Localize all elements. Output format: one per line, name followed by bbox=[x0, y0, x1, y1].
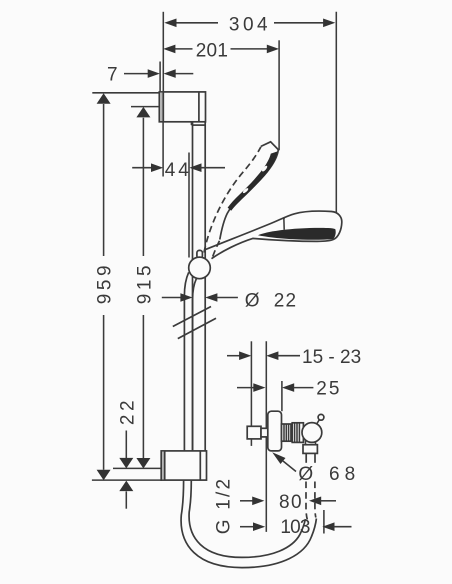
slider holder circle bbox=[189, 257, 211, 279]
hand shower dashed position: head cap bbox=[261, 142, 278, 150]
svg-text:22: 22 bbox=[117, 397, 138, 425]
svg-text:304: 304 bbox=[229, 14, 271, 35]
svg-text:25: 25 bbox=[316, 378, 341, 399]
valve knob nub bbox=[317, 414, 324, 423]
svg-text:G 1/2: G 1/2 bbox=[214, 477, 235, 534]
hand shower solid position: spray face band bbox=[258, 228, 336, 240]
dim 15-23 bbox=[227, 347, 361, 368]
valve knob bbox=[302, 423, 322, 443]
svg-text:22: 22 bbox=[274, 290, 298, 311]
dim 304 bbox=[164, 14, 335, 35]
extension line B (escutcheon) bbox=[265, 341, 267, 532]
extension line A (15-23 left) bbox=[250, 341, 252, 446]
wall bar rail bbox=[193, 123, 206, 452]
svg-text:80: 80 bbox=[279, 492, 303, 513]
dim 959 vertical bbox=[94, 93, 115, 480]
extension line 915 bottom bbox=[113, 467, 162, 469]
break marks across rail bbox=[173, 307, 211, 327]
hand shower solid position: select button bbox=[283, 220, 285, 230]
dim 25 bbox=[237, 378, 341, 399]
extension line 201 target bbox=[278, 40, 280, 150]
dim 7 bbox=[107, 64, 193, 85]
valve supply pipe bbox=[247, 426, 268, 439]
valve outlet bbox=[303, 441, 317, 463]
extension line 915 top bbox=[131, 106, 160, 108]
hand shower dashed position: spray face band bbox=[228, 151, 278, 210]
dim diameter 22 bbox=[162, 290, 298, 311]
valve escutcheon bbox=[268, 411, 282, 451]
wall extension line top bbox=[162, 12, 164, 92]
wall plate line for 7 dim bbox=[159, 62, 161, 92]
hand shower dashed position: head right outline bbox=[220, 150, 278, 240]
extension line 304 target bbox=[335, 12, 337, 213]
hose upper from handle bbox=[184, 272, 196, 451]
svg-text:68: 68 bbox=[329, 464, 360, 485]
extension line C (escutcheon front) bbox=[281, 381, 283, 411]
svg-text:7: 7 bbox=[107, 64, 118, 85]
svg-text:15 - 23: 15 - 23 bbox=[302, 347, 361, 368]
hose dashed section to valve bbox=[306, 482, 316, 520]
dim 80 bbox=[240, 492, 336, 513]
svg-text:959: 959 bbox=[94, 262, 115, 304]
svg-text:201: 201 bbox=[196, 40, 229, 61]
hose below bracket + bottom loop bbox=[181, 480, 316, 567]
dim 201 bbox=[163, 40, 279, 61]
valve cartridge knurl bbox=[282, 424, 293, 441]
dim 103 bbox=[240, 517, 352, 538]
valve body bbox=[292, 423, 303, 443]
slider holder nub bbox=[197, 250, 203, 258]
svg-text:44: 44 bbox=[165, 160, 192, 181]
bottom bracket bbox=[161, 451, 206, 480]
extension line 959 bottom bbox=[92, 479, 162, 481]
dim 22 vertical bbox=[117, 397, 138, 509]
extension line 103 right bbox=[323, 510, 325, 534]
dim 915 vertical bbox=[135, 107, 156, 469]
hand shower dashed position: handle outline dashed bbox=[204, 147, 261, 257]
hand shower solid position: body outline bbox=[206, 211, 342, 259]
dim 44 bbox=[132, 122, 225, 258]
pointer diameter 68 bbox=[272, 452, 360, 485]
extension line 959 top bbox=[92, 92, 159, 94]
top bracket bbox=[159, 92, 205, 125]
svg-text:Ø: Ø bbox=[245, 291, 260, 312]
svg-text:103: 103 bbox=[280, 517, 310, 538]
svg-text:915: 915 bbox=[135, 262, 156, 304]
